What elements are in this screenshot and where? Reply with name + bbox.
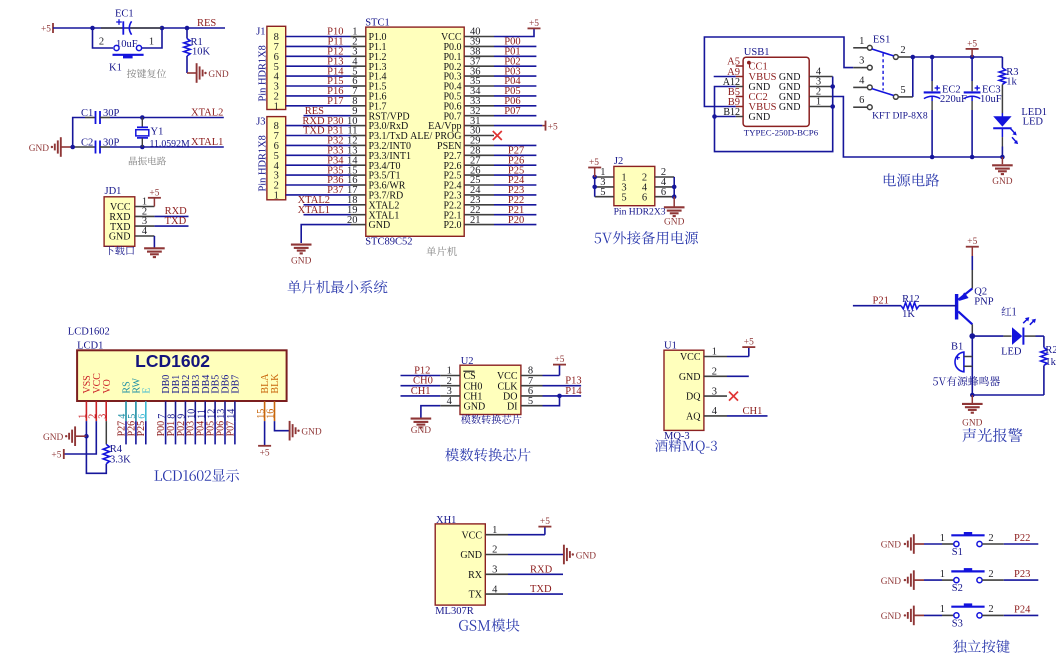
- svg-text:TX: TX: [469, 590, 483, 601]
- connector J3: [267, 117, 286, 200]
- capacitor EC1: [101, 19, 162, 35]
- capacitor EC2: [924, 57, 941, 157]
- label TYPEC-250D-BCP6: [744, 128, 819, 138]
- svg-text:C2: C2: [81, 137, 93, 148]
- wires P0 bus: [494, 46, 536, 115]
- ground (U2): [411, 406, 441, 437]
- J3 pin numbers: [274, 121, 280, 201]
- svg-text:A5: A5: [727, 57, 740, 68]
- ground (R1): [187, 63, 229, 83]
- pin 1 (S3): [940, 604, 945, 615]
- label R12: [902, 294, 920, 305]
- wire S1 left: [924, 543, 954, 545]
- svg-text:1: 1: [816, 97, 821, 108]
- ground (GSM): [508, 545, 596, 565]
- power +5 (J2): [588, 158, 601, 177]
- svg-text:+5: +5: [744, 338, 754, 348]
- STC1 right pin stubs: [464, 37, 494, 225]
- caption 下载口: [105, 246, 134, 255]
- label U2: [461, 356, 474, 367]
- led LED1: [993, 113, 1018, 157]
- svg-text:GND: GND: [679, 372, 701, 383]
- svg-text:USB1: USB1: [744, 47, 770, 58]
- svg-text:5: 5: [900, 85, 905, 96]
- label C1: [81, 108, 93, 119]
- wire P21: [853, 305, 901, 307]
- svg-text:VCC: VCC: [680, 352, 701, 363]
- U1 pin names: [679, 352, 701, 422]
- connector JD1: [104, 197, 135, 247]
- net TXD (GSM): [530, 584, 552, 595]
- wire TXD (JD1): [154, 225, 188, 227]
- svg-text:+5: +5: [41, 25, 51, 35]
- wire GND rail dots: [930, 155, 1005, 160]
- svg-text:GND: GND: [992, 177, 1013, 187]
- ic LCD1 LCD1602: [77, 350, 287, 401]
- pin 1 (S2): [940, 569, 945, 580]
- J2 right stubs: [655, 177, 674, 197]
- net XTAL2: [191, 107, 223, 118]
- svg-text:4: 4: [859, 75, 865, 86]
- svg-text:P22: P22: [1014, 533, 1030, 544]
- wire P22: [982, 543, 1038, 545]
- nets P10-P17: [327, 27, 344, 107]
- label U1 (MQ-3): [664, 340, 677, 351]
- svg-text:R2: R2: [1045, 345, 1056, 356]
- U2 left pin names: [463, 371, 485, 412]
- transistor Q2 PNP: [957, 289, 973, 325]
- svg-text:P14: P14: [565, 386, 582, 397]
- STC1 left pin names: [369, 32, 412, 231]
- svg-text:1: 1: [940, 533, 945, 544]
- svg-text:J1: J1: [256, 26, 265, 37]
- wires LCD RS/RW/E: [126, 421, 146, 444]
- wire MQ-3 GND: [727, 375, 749, 377]
- svg-text:GND: GND: [291, 256, 312, 266]
- svg-text:GND: GND: [962, 419, 983, 429]
- svg-text:6: 6: [137, 414, 148, 419]
- no-connect X (pin30): [493, 131, 502, 140]
- label Pin HDR2X3: [614, 207, 666, 218]
- svg-text:+5: +5: [589, 158, 599, 168]
- svg-text:BLK: BLK: [270, 373, 281, 394]
- svg-text:S3: S3: [952, 618, 963, 629]
- caption 酒精MQ-3: [655, 439, 717, 453]
- svg-text:RES: RES: [197, 18, 216, 29]
- wire DI join: [543, 396, 560, 406]
- XH1 pin stubs: [485, 535, 508, 594]
- svg-text:3: 3: [859, 56, 864, 67]
- svg-text:220uF: 220uF: [940, 94, 967, 105]
- svg-text:GND: GND: [369, 220, 391, 231]
- value 11.0592M: [150, 139, 190, 150]
- STC1 left pin stubs: [351, 37, 366, 225]
- wire +5 to Q2 emitter: [971, 256, 973, 289]
- svg-text:R12: R12: [902, 294, 920, 305]
- power +5 (MQ-3): [727, 338, 755, 357]
- label ES1: [873, 35, 891, 46]
- svg-text:DQ: DQ: [686, 392, 701, 403]
- value 30P (C2): [103, 137, 120, 148]
- ground (alarm): [962, 395, 983, 429]
- wire R2 return: [970, 393, 1044, 398]
- svg-text:CC1: CC1: [749, 62, 768, 73]
- net P23: [1014, 569, 1030, 580]
- svg-text:P24: P24: [1014, 604, 1031, 615]
- svg-text:2: 2: [988, 604, 993, 615]
- svg-text:Pin HDR1X8: Pin HDR1X8: [257, 45, 268, 101]
- J2 left stubs: [595, 177, 614, 197]
- svg-text:B1: B1: [951, 341, 963, 352]
- svg-text:5: 5: [621, 192, 626, 203]
- pushbutton K1: [113, 45, 144, 58]
- svg-text:2: 2: [988, 569, 993, 580]
- XH1 pin names: [460, 530, 482, 600]
- net RXD P30: [302, 116, 343, 127]
- svg-text:Pin HDR1X8: Pin HDR1X8: [257, 135, 268, 191]
- wire K1 right: [142, 28, 162, 48]
- net RXD (GSM): [530, 564, 553, 575]
- caption GSM模块: [459, 619, 519, 632]
- power +5 (alarm): [966, 237, 979, 256]
- svg-text:2: 2: [900, 45, 905, 56]
- pin 2 (K1): [99, 37, 104, 48]
- svg-text:4: 4: [142, 226, 148, 237]
- label J3: [256, 116, 265, 127]
- net P14: [565, 386, 582, 397]
- net RES: [197, 18, 216, 29]
- svg-text:K1: K1: [109, 63, 122, 74]
- svg-text:GND: GND: [881, 541, 902, 551]
- pushbutton S1: [951, 532, 984, 547]
- svg-text:C1: C1: [81, 108, 93, 119]
- svg-text:P17: P17: [327, 96, 343, 107]
- caption LCD1602显示: [154, 469, 239, 482]
- caption 单片机最小系统: [288, 280, 388, 293]
- ic U1 MQ-3: [664, 350, 704, 430]
- svg-text:RX: RX: [468, 570, 483, 581]
- svg-text:6: 6: [859, 95, 864, 106]
- wires J3 to STC1 P3 bus: [286, 126, 351, 195]
- svg-text:21: 21: [470, 215, 481, 226]
- ground (S1): [881, 534, 924, 554]
- nets P32-P37: [327, 136, 344, 197]
- svg-text:Pin HDR2X3: Pin HDR2X3: [614, 207, 666, 218]
- J2 inside numbers: [621, 173, 648, 204]
- pin 2 (S1): [988, 533, 993, 544]
- svg-text:6: 6: [661, 187, 666, 198]
- caption 晶振电路: [129, 156, 166, 165]
- wire VSS to R4 bottom: [86, 436, 106, 473]
- svg-text:4: 4: [712, 406, 718, 417]
- wire RXD (GSM): [508, 573, 563, 575]
- USB1 left pin names: [749, 62, 777, 124]
- U2 right stubs: [521, 376, 543, 406]
- wire S3 left: [924, 614, 954, 616]
- svg-text:1: 1: [859, 36, 864, 47]
- USB1 right pin stubs: [809, 77, 833, 107]
- value 1k (R3): [1006, 76, 1017, 87]
- label S3: [952, 618, 963, 629]
- label R4: [110, 444, 123, 455]
- net P12: [414, 366, 430, 377]
- svg-text:+5: +5: [967, 237, 977, 247]
- wire Q2 collector node: [969, 324, 975, 395]
- net XTAL1 (pin19): [298, 205, 330, 216]
- wire USB pin2 to GND rail: [833, 97, 1003, 158]
- svg-text:4: 4: [492, 584, 498, 595]
- U2 right pin numbers: [528, 366, 533, 407]
- svg-text:ES1: ES1: [873, 35, 891, 46]
- label STC1: [365, 17, 390, 28]
- label JD1: [105, 186, 122, 197]
- power +5 (pin31 EA): [494, 121, 558, 133]
- svg-text:GND: GND: [881, 577, 902, 587]
- svg-text:GND: GND: [29, 144, 50, 154]
- LCD1 pin names: [82, 373, 281, 394]
- wires LCD data bus: [166, 421, 235, 444]
- XH1 pin numbers: [492, 525, 498, 595]
- svg-text:GND: GND: [460, 550, 482, 561]
- power +5 (rail): [966, 40, 979, 57]
- wire XTAL1: [110, 145, 224, 150]
- nets P00-P07 (vertical): [156, 421, 236, 437]
- svg-text:1K: 1K: [902, 309, 915, 320]
- svg-text:2: 2: [712, 367, 717, 378]
- label 模数转换芯片 (small): [461, 415, 521, 424]
- capacitor C2: [70, 141, 110, 154]
- ic USB1 TYPEC: [743, 57, 809, 126]
- svg-text:XTAL2: XTAL2: [191, 107, 223, 118]
- wire LED to R2: [1024, 335, 1044, 337]
- label STC89C52: [365, 237, 412, 248]
- STC1 right pin numbers: [470, 27, 481, 226]
- value 30P (C1): [103, 108, 120, 119]
- J1 pin numbers: [274, 32, 280, 112]
- STC1 right pin names: [410, 32, 462, 231]
- svg-text:3: 3: [492, 565, 497, 576]
- value 3.3K: [110, 454, 131, 465]
- ic STC1 STC89C52: [366, 27, 464, 236]
- USB1 right pin names: [779, 72, 801, 113]
- J2 right pin numbers: [661, 167, 667, 198]
- resistor R1: [184, 28, 190, 73]
- nets P00-P07: [504, 37, 521, 117]
- svg-text:GND: GND: [411, 426, 432, 436]
- svg-text:+5: +5: [260, 448, 270, 458]
- U2 left stubs: [440, 376, 460, 406]
- label Y1: [151, 126, 164, 137]
- value 220uF: [940, 94, 967, 105]
- U2 right pin names: [497, 371, 518, 412]
- power +5 (BLA): [258, 446, 271, 459]
- svg-text:DI: DI: [507, 401, 518, 412]
- label S2: [952, 583, 963, 594]
- svg-text:E: E: [141, 387, 152, 393]
- USB1 left pin stubs: [736, 66, 743, 117]
- svg-text:1: 1: [492, 525, 497, 536]
- resistor R12: [901, 303, 956, 309]
- wire VCC to +5: [64, 421, 97, 454]
- LCD1 pin stubs: [86, 401, 274, 421]
- USB1 pin1 dot: [747, 61, 751, 65]
- net TXD P31: [303, 126, 344, 137]
- svg-text:2: 2: [492, 545, 497, 556]
- svg-text:+5: +5: [555, 355, 565, 365]
- net P22: [1014, 533, 1030, 544]
- LCD1 pin numbers: [78, 409, 277, 419]
- ic XH1 ML307R: [435, 524, 485, 605]
- svg-text:3.3K: 3.3K: [110, 454, 131, 465]
- svg-text:+5: +5: [149, 189, 159, 199]
- label LED1: [1021, 107, 1047, 118]
- svg-text:10uF: 10uF: [980, 94, 1002, 105]
- led 红1: [1012, 317, 1036, 345]
- svg-text:3: 3: [97, 414, 108, 419]
- JD1 pin numbers: [142, 196, 148, 237]
- svg-text:6: 6: [642, 192, 647, 203]
- label MQ-3: [664, 431, 690, 442]
- svg-text:1: 1: [712, 347, 717, 358]
- wire RES (STC1 pin9): [304, 115, 351, 117]
- wires J1 to STC1 P1 bus: [286, 37, 351, 106]
- power +5 (U2): [543, 355, 567, 376]
- wire P12: [401, 375, 441, 377]
- svg-text:GND: GND: [109, 232, 131, 243]
- ES1 pin leads: [853, 48, 913, 107]
- caption 模数转换芯片: [445, 448, 530, 461]
- power +5 (reset): [41, 23, 53, 35]
- svg-text:VCC: VCC: [461, 530, 482, 541]
- ic U2 ADC: [460, 365, 521, 414]
- wire CH1 (MQ-3): [727, 415, 768, 417]
- svg-text:1: 1: [149, 37, 154, 48]
- wire J2 left bus: [592, 175, 597, 197]
- net TXD: [165, 216, 187, 227]
- net CH0: [413, 376, 433, 387]
- value 1k (R2): [1045, 357, 1056, 368]
- wire to LED: [972, 335, 1011, 337]
- ground (power rail): [992, 157, 1013, 187]
- wire CH1 (U2): [401, 395, 441, 397]
- svg-text:P25: P25: [136, 421, 147, 437]
- wire ES1 pin2/pin5: [911, 55, 916, 97]
- wires P2 bus: [494, 155, 536, 224]
- caption 独立按键: [953, 640, 1010, 653]
- svg-text:XTAL1: XTAL1: [298, 205, 330, 216]
- svg-text:GND: GND: [749, 112, 771, 123]
- wire VBUS A9: [714, 76, 736, 78]
- wire B12: [715, 116, 736, 118]
- svg-text:AQ: AQ: [686, 412, 701, 423]
- JD1 pin names: [109, 202, 131, 243]
- svg-text:P23: P23: [1014, 569, 1030, 580]
- svg-text:LCD1602: LCD1602: [135, 351, 210, 371]
- net RXD: [165, 206, 188, 217]
- svg-text:XTAL1: XTAL1: [191, 137, 223, 148]
- value LED: [1023, 116, 1044, 127]
- value 10K: [192, 47, 211, 58]
- JD1 pin stubs: [135, 207, 155, 237]
- U1 pin numbers: [712, 347, 718, 417]
- wire P23: [982, 579, 1038, 581]
- svg-text:2: 2: [988, 533, 993, 544]
- label K1: [109, 63, 122, 74]
- wire +5 rail: [913, 55, 1003, 60]
- svg-text:KFT DIP-8X8: KFT DIP-8X8: [872, 111, 928, 122]
- wire C1 left: [73, 118, 85, 148]
- svg-text:GND: GND: [43, 433, 64, 443]
- pin 2 (S3): [988, 604, 993, 615]
- pin 1 (K1): [149, 37, 154, 48]
- wire S2 left: [924, 579, 954, 581]
- wire TXD (GSM): [508, 593, 563, 595]
- svg-text:VO: VO: [102, 379, 113, 393]
- USB1 right pin numbers: [816, 67, 822, 108]
- svg-text:TXD: TXD: [530, 584, 552, 595]
- svg-text:S2: S2: [952, 583, 963, 594]
- wire XTAL1 (pin19): [304, 214, 351, 216]
- svg-text:LCD1602: LCD1602: [68, 327, 110, 338]
- label ML307R: [435, 606, 474, 617]
- svg-text:Y1: Y1: [151, 126, 164, 137]
- svg-text:JD1: JD1: [105, 186, 122, 197]
- svg-text:ML307R: ML307R: [435, 606, 474, 617]
- label XH1: [436, 515, 456, 526]
- buzzer B1: [955, 352, 972, 372]
- svg-text:GND: GND: [301, 428, 322, 438]
- net XTAL1: [191, 137, 223, 148]
- connector J2: [614, 166, 655, 205]
- caption 5V外接备用电源: [595, 231, 699, 244]
- svg-text:GND: GND: [464, 401, 486, 412]
- svg-text:EC1: EC1: [115, 9, 134, 20]
- switch ES1 contacts: [867, 45, 898, 109]
- wire P13: [543, 385, 582, 387]
- svg-text:16: 16: [266, 409, 277, 419]
- svg-text:5: 5: [528, 396, 533, 407]
- svg-text:+5: +5: [51, 451, 61, 461]
- label Pin HDR1X8 (J3): [257, 135, 268, 191]
- power +5 (JD1): [148, 189, 161, 207]
- svg-text:LED: LED: [1001, 347, 1022, 358]
- value PNP: [974, 297, 993, 308]
- svg-text:GND: GND: [208, 70, 229, 80]
- net XTAL2 (pin18): [298, 195, 330, 206]
- wire RXD (JD1): [154, 215, 188, 217]
- svg-text:5: 5: [600, 187, 605, 198]
- caption 单片机: [426, 246, 457, 256]
- svg-text:CH1: CH1: [411, 386, 431, 397]
- net CH1 (U2): [411, 386, 431, 397]
- wire P14 DO: [543, 394, 582, 399]
- net P24: [1014, 604, 1031, 615]
- value 10uF: [980, 94, 1002, 105]
- label J1: [256, 26, 265, 37]
- label EC1: [115, 9, 134, 20]
- svg-text:TXD: TXD: [165, 216, 187, 227]
- label C2: [81, 137, 93, 148]
- value 10uF: [116, 39, 138, 50]
- power +5 (LCD VCC): [51, 449, 63, 461]
- label R1: [191, 37, 203, 48]
- label 红1: [1002, 307, 1017, 316]
- ground (BLK): [290, 421, 322, 441]
- wire P24: [982, 614, 1038, 616]
- svg-text:PNP: PNP: [974, 297, 993, 308]
- USB1 pin designators A5-B12: [723, 57, 740, 119]
- connector J1: [267, 26, 286, 109]
